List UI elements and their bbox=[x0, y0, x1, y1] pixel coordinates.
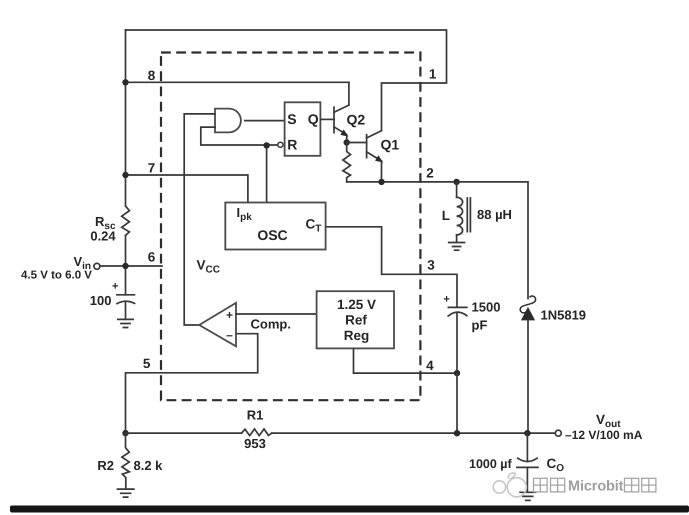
node inductor junction bbox=[453, 179, 459, 185]
bottom divider bar bbox=[10, 506, 689, 513]
transistor Q1 bbox=[367, 131, 384, 182]
capacitor C1 100uF bbox=[117, 295, 135, 320]
node R wire junction bbox=[263, 142, 269, 148]
ground under R2 bbox=[118, 489, 134, 497]
node pin 4 junction bbox=[454, 370, 460, 376]
svg-text:Q: Q bbox=[308, 111, 319, 127]
svg-text:R1: R1 bbox=[247, 408, 264, 423]
node pin 6 junction bbox=[122, 263, 128, 269]
wire pin 4 line bbox=[354, 348, 458, 373]
svg-text:+: + bbox=[443, 294, 449, 306]
svg-text:8: 8 bbox=[148, 68, 156, 83]
ground under CO bbox=[520, 492, 535, 500]
svg-text:Microbit: Microbit bbox=[568, 479, 624, 495]
svg-text:1500: 1500 bbox=[472, 300, 501, 315]
svg-text:3: 3 bbox=[427, 258, 435, 273]
svg-text:4: 4 bbox=[426, 358, 434, 373]
resistor R1 bbox=[242, 429, 272, 436]
svg-text:1: 1 bbox=[429, 67, 437, 82]
capacitor CO 1000uF bbox=[517, 433, 538, 492]
wire pin 8 line bbox=[126, 81, 349, 83]
capacitor C3 1500pF bbox=[448, 307, 467, 373]
transistor Q2 bbox=[334, 105, 349, 142]
watermark logo bbox=[493, 473, 526, 497]
svg-text:Ipk: Ipk bbox=[237, 205, 253, 223]
svg-text:7: 7 bbox=[148, 161, 156, 176]
wire left vertical rail upper bbox=[125, 30, 127, 206]
wire pin 7 line to Ipk bbox=[126, 175, 248, 203]
svg-text:Q1: Q1 bbox=[381, 137, 400, 153]
node Q1 base junction bbox=[344, 139, 350, 145]
node output junction b bbox=[524, 430, 530, 436]
svg-text:R2: R2 bbox=[97, 458, 114, 473]
svg-text:2: 2 bbox=[426, 166, 434, 181]
oscillator U3 bbox=[225, 203, 325, 250]
ground under L bbox=[449, 243, 465, 251]
svg-text:5: 5 bbox=[143, 356, 151, 371]
svg-text:OSC: OSC bbox=[257, 227, 287, 243]
wire Q output to Q2 base bbox=[320, 118, 334, 120]
node Q1 emitter junction bbox=[378, 179, 384, 185]
wire output feedback line bbox=[126, 432, 556, 434]
svg-text:S: S bbox=[287, 111, 296, 127]
svg-text:+: + bbox=[226, 308, 233, 322]
svg-text:–12 V/100 mA: –12 V/100 mA bbox=[565, 428, 643, 442]
diode D1 1N5819 bbox=[520, 296, 535, 433]
svg-text:1N5819: 1N5819 bbox=[541, 308, 587, 323]
svg-text:VCC: VCC bbox=[197, 258, 220, 276]
svg-text:6: 6 bbox=[148, 250, 156, 265]
svg-text:CT: CT bbox=[306, 217, 322, 235]
wire S input bbox=[245, 120, 285, 122]
node feedback junction bbox=[122, 430, 128, 436]
svg-text:pF: pF bbox=[472, 318, 488, 333]
op-amp comparator bbox=[199, 303, 236, 346]
svg-text:Comp.: Comp. bbox=[251, 317, 291, 332]
node pin 8 junction bbox=[122, 79, 128, 85]
terminal Vin bbox=[94, 263, 100, 269]
svg-text:CO: CO bbox=[547, 456, 565, 474]
svg-text:953: 953 bbox=[244, 436, 266, 451]
svg-text:8.2 k: 8.2 k bbox=[134, 458, 164, 473]
wire node to Q1 base bbox=[347, 142, 367, 144]
svg-text:–: – bbox=[226, 328, 233, 342]
svg-text:R: R bbox=[287, 136, 297, 152]
svg-text:Reg: Reg bbox=[344, 328, 370, 343]
node R inverting bubble bbox=[278, 142, 283, 147]
wire pin 6 line bbox=[100, 265, 162, 267]
svg-text:1.25 V: 1.25 V bbox=[337, 297, 376, 312]
wire AND top input from comparator output bbox=[184, 114, 215, 325]
node output junction a bbox=[454, 430, 460, 436]
terminal Vout bbox=[555, 430, 561, 436]
svg-text:1000 µf: 1000 µf bbox=[469, 457, 512, 471]
svg-text:Ref: Ref bbox=[345, 313, 367, 328]
wire pin 2 line bbox=[347, 182, 528, 299]
svg-text:100: 100 bbox=[90, 293, 112, 308]
node pin 7 junction bbox=[122, 172, 128, 178]
resistor R2 bbox=[122, 433, 129, 489]
resistor Q1 base bleed bbox=[343, 143, 351, 182]
svg-text:0.24: 0.24 bbox=[90, 229, 116, 244]
and-gate G1 bbox=[215, 109, 241, 133]
inductor L bbox=[457, 182, 471, 242]
watermark text bbox=[534, 478, 656, 494]
wire R node to OSC bbox=[266, 145, 268, 202]
IC dashed boundary U1 bbox=[161, 53, 420, 401]
wire Q2 collector to pin8 line bbox=[348, 82, 350, 105]
wire CT to pin 3 line bbox=[326, 227, 457, 307]
svg-text:4.5 V to 6.0 V: 4.5 V to 6.0 V bbox=[21, 270, 92, 282]
regulator U4 1.25V Ref bbox=[317, 291, 394, 348]
latch U2 S-R bbox=[285, 102, 321, 156]
wire cap to output line bbox=[456, 373, 458, 433]
wire comparator plus input to reference bbox=[236, 313, 317, 315]
svg-text:+: + bbox=[112, 281, 118, 293]
wire pin 5 line to comparator inverting input bbox=[126, 334, 258, 433]
ground under C1 bbox=[118, 319, 133, 327]
svg-text:88 µH: 88 µH bbox=[477, 207, 512, 222]
svg-text:Q2: Q2 bbox=[347, 112, 366, 128]
svg-text:L: L bbox=[442, 208, 450, 223]
wire AND bottom input loop bbox=[201, 127, 278, 145]
wire top loop pins 1-8 interconnect bbox=[126, 30, 447, 131]
wire left vertical rail lower bbox=[125, 235, 127, 294]
resistor Rsc bbox=[122, 206, 130, 235]
